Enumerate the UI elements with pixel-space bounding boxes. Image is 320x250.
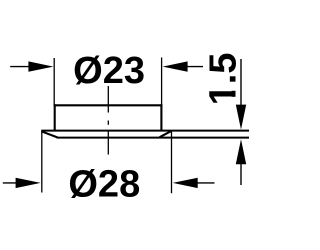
body top edge	[54, 104, 163, 106]
dia23 left extension line	[53, 58, 55, 105]
svg-text:Ø28: Ø28	[68, 163, 140, 205]
white patches trimming the serif foot of digit 1	[231, 84, 238, 91]
dia28 left extension line	[41, 132, 43, 193]
svg-text:Ø23: Ø23	[73, 50, 145, 92]
dia28 right arrow	[182, 182, 215, 184]
thickness 1.5 upper dimension line	[240, 59, 242, 113]
dia23 right extension line	[161, 58, 163, 106]
flange bottom edge with right extension line	[57, 137, 249, 139]
dia28 right extension line	[171, 132, 173, 194]
dia28 left arrow	[3, 182, 32, 184]
flange right chamfer	[160, 131, 171, 137]
flange left chamfer	[41, 131, 57, 137]
thickness 1.5 lower dimension line	[240, 156, 242, 185]
body left edge	[54, 104, 56, 130]
centerline	[107, 86, 109, 113]
flange top edge with right extension line	[41, 130, 249, 132]
svg-text:1.5: 1.5	[203, 53, 245, 106]
dia23 right arrow	[172, 66, 203, 68]
body right edge	[160, 104, 162, 130]
dia23 left arrow	[10, 66, 44, 68]
